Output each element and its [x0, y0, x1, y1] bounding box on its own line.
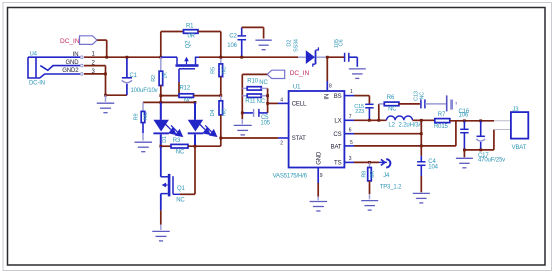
svg-text:R12: R12	[180, 86, 191, 92]
svg-text:VAS5175/H/6: VAS5175/H/6	[273, 174, 308, 180]
svg-text:0R: 0R	[370, 171, 376, 178]
svg-text:7: 7	[349, 114, 352, 120]
svg-text:D2: D2	[287, 40, 293, 47]
svg-text:C1: C1	[130, 73, 138, 79]
net label DC_IN (right flag)	[267, 70, 309, 78]
svg-text:DC_IN: DC_IN	[290, 70, 310, 77]
resistor R11 NC	[242, 94, 267, 105]
node LED1 anode	[159, 101, 162, 104]
node C15 bottom	[368, 119, 371, 122]
ground C4	[413, 193, 430, 203]
svg-text:NC: NC	[143, 112, 149, 120]
svg-text:104: 104	[428, 164, 438, 170]
svg-text:1K: 1K	[163, 72, 169, 79]
capacitor C13 NC	[413, 91, 425, 108]
wire BS pin 1	[344, 96, 369, 104]
node C17 top	[479, 119, 482, 122]
node LED2 anode	[194, 101, 197, 104]
node R5 top junction	[219, 56, 222, 59]
pin GND 9	[316, 151, 322, 179]
svg-text:NC: NC	[222, 66, 228, 74]
pin CS 6	[333, 127, 351, 137]
ground C2	[255, 40, 271, 50]
svg-text:NC: NC	[222, 108, 228, 116]
node R11 right	[266, 94, 269, 97]
wire IN row	[84, 56, 161, 58]
wire Q2 drain to D2	[199, 56, 298, 58]
svg-text:D1: D1	[162, 136, 168, 143]
resistor R6 NC	[379, 95, 399, 112]
wire LED1 cathode to Q1 drain	[160, 146, 162, 177]
wire flag to R10/R11	[242, 74, 267, 113]
wire GND2 pin3	[84, 73, 106, 75]
svg-text:BS: BS	[334, 94, 342, 100]
svg-text:0R: 0R	[188, 34, 196, 40]
capacitor C5 105	[242, 109, 270, 127]
node C16 bottom	[463, 149, 466, 152]
resistor R9 NC	[134, 102, 150, 140]
pin CELL 4	[280, 97, 307, 107]
svg-text:U4: U4	[30, 52, 38, 58]
svg-text:J4: J4	[383, 173, 390, 179]
svg-text:R7: R7	[438, 112, 446, 118]
wire R2 bottom	[160, 86, 162, 103]
svg-text:D4: D4	[210, 110, 216, 117]
wire C13 to battery	[425, 103, 447, 105]
svg-text:223: 223	[355, 109, 364, 115]
ground R9	[135, 142, 153, 152]
ground R8	[361, 201, 378, 211]
node C16 top	[463, 119, 466, 122]
svg-text:Q2: Q2	[186, 40, 192, 49]
wire STAT to D4 column	[221, 137, 289, 139]
capacitor C6 105	[327, 39, 357, 67]
svg-text:9: 9	[320, 173, 323, 179]
capacitor C1 100uF/10v	[122, 57, 158, 95]
wire LED2 cathode to Q1 gate	[180, 146, 195, 194]
wire U1 GND pin	[317, 168, 319, 201]
testpoint J4 TP3_1.2	[379, 159, 402, 190]
wire battery negative rail	[464, 130, 494, 150]
ground C16	[463, 150, 465, 158]
svg-text:NC: NC	[259, 80, 268, 86]
node CS column top	[420, 119, 423, 122]
connector U4 (DC-IN jack)	[28, 52, 80, 87]
svg-text:NC: NC	[184, 98, 193, 104]
node C5 left junction	[241, 112, 244, 115]
svg-text:R6: R6	[387, 95, 395, 101]
svg-text:VBAT: VBAT	[512, 145, 527, 151]
wire R6 branch vertical	[378, 104, 380, 120]
battery symbol (cell)	[447, 95, 457, 111]
resistor R7 R015	[434, 112, 450, 130]
wire R6 to C13	[399, 103, 420, 105]
transistor Q1 NC (N-MOSFET)	[161, 174, 186, 211]
pin 1 IN	[73, 52, 96, 59]
inductor L2 2.2uH/3A	[387, 116, 423, 128]
svg-text:4: 4	[280, 97, 283, 103]
node R8 top	[368, 161, 371, 164]
wire R12 left	[161, 95, 179, 97]
node Q2 source junction	[159, 56, 162, 59]
svg-text:NC: NC	[176, 198, 185, 204]
node BAT rail crossing	[420, 145, 423, 148]
node CELL branch	[266, 102, 269, 105]
wire C2 top hook	[242, 27, 264, 38]
node C2 bottom	[240, 56, 243, 59]
resistor R10 NC	[242, 79, 268, 91]
wire BAT pin 5 rail	[344, 121, 456, 146]
svg-text:C6: C6	[339, 40, 345, 47]
wire CELL pin 4	[268, 102, 289, 104]
svg-text:105: 105	[260, 121, 270, 127]
wire CS column	[420, 120, 422, 146]
svg-text:LX: LX	[334, 119, 341, 125]
capacitor C2 106	[227, 27, 246, 57]
wire R1 left	[161, 32, 184, 58]
svg-text:J3: J3	[512, 107, 519, 113]
resistor R12 NC	[179, 86, 194, 105]
wire R10/R11 right vertical	[267, 88, 269, 113]
svg-text:GND2: GND2	[62, 68, 79, 74]
capacitor C4 104	[417, 146, 439, 192]
diode D4 NC (vertical body)	[210, 96, 227, 147]
svg-text:R8: R8	[362, 171, 368, 178]
wire LX pin 7	[344, 119, 386, 121]
resistor R1 0R	[184, 23, 199, 39]
svg-text:3: 3	[349, 156, 352, 162]
svg-text:106: 106	[227, 43, 237, 49]
pin STAT 2	[280, 136, 306, 146]
ground (input)	[97, 95, 115, 113]
wire LED anode row	[143, 101, 195, 103]
connector J3 VBAT	[494, 107, 528, 151]
capacitor C16 106	[459, 109, 470, 150]
wire D2 junction to U1 IN pin 8	[326, 57, 328, 91]
wire Q1 source to ground	[160, 210, 162, 230]
node R3 left	[159, 145, 162, 148]
svg-text:GND: GND	[65, 60, 79, 66]
pin IN 8	[324, 84, 332, 100]
node CS junction	[420, 132, 423, 135]
node D2 cathode junction	[326, 56, 329, 59]
svg-text:R015: R015	[434, 124, 449, 130]
svg-text:CELL: CELL	[292, 102, 307, 108]
svg-text:SS34: SS34	[294, 39, 300, 52]
svg-text:1: 1	[350, 89, 353, 95]
wire CS pin 6	[344, 133, 421, 135]
wire R7 right / output rail	[450, 120, 494, 122]
svg-text:NC: NC	[257, 99, 266, 105]
wire L2 to R7	[413, 119, 435, 121]
wire GND pin2	[84, 66, 106, 96]
svg-text:DC_IN: DC_IN	[60, 38, 80, 45]
wire flag to IN row	[97, 40, 107, 57]
svg-text:U1: U1	[293, 85, 301, 91]
transistor Q2 (P-MOSFET)	[161, 40, 199, 96]
pin BAT 5	[331, 140, 353, 150]
LED D3	[188, 102, 217, 146]
svg-text:IN: IN	[324, 94, 330, 100]
svg-text:R1: R1	[186, 23, 194, 29]
svg-text:8: 8	[329, 84, 332, 90]
svg-text:C2: C2	[229, 33, 237, 39]
node R6 branch	[377, 119, 380, 122]
svg-text:TP3_1.2: TP3_1.2	[380, 184, 402, 190]
svg-text:STAT: STAT	[292, 136, 306, 142]
svg-text:R11: R11	[245, 98, 256, 104]
svg-text:L2: L2	[388, 122, 395, 128]
svg-text:DC-IN: DC-IN	[29, 81, 45, 87]
svg-text:470uF/25v: 470uF/25v	[478, 158, 505, 164]
node R12 row left	[159, 94, 162, 97]
svg-text:IN: IN	[73, 52, 79, 58]
ground U1	[310, 202, 328, 212]
svg-text:R3: R3	[173, 138, 181, 144]
svg-text:NC: NC	[388, 106, 397, 112]
resistor R8 0R	[362, 162, 377, 199]
svg-text:106: 106	[459, 113, 469, 119]
svg-text:2.2uH/3A: 2.2uH/3A	[399, 122, 423, 128]
svg-text:R5: R5	[210, 67, 216, 74]
node C17 bottom	[479, 149, 482, 152]
capacitor C15 223	[354, 104, 373, 120]
pin LX 7	[334, 114, 351, 125]
svg-text:Q1: Q1	[177, 186, 186, 192]
LED D1	[153, 102, 182, 146]
node R12 right junction	[219, 94, 222, 97]
pin 2 GND	[65, 60, 95, 67]
svg-text:TS: TS	[334, 161, 342, 167]
pin BS 1	[334, 89, 353, 100]
svg-text:R10: R10	[247, 79, 258, 85]
svg-text:100uF/10v: 100uF/10v	[131, 88, 158, 94]
svg-text:R2: R2	[151, 75, 157, 82]
ground C5	[241, 113, 243, 124]
wire to C1 bottom	[106, 94, 127, 96]
svg-text:NC: NC	[419, 92, 425, 100]
resistor R2 1K	[151, 57, 169, 85]
svg-text:2: 2	[280, 140, 283, 146]
pin 3 GND2	[62, 68, 95, 75]
ground C6	[349, 69, 366, 79]
svg-text:6: 6	[349, 127, 352, 133]
diode D2 SS34	[287, 39, 328, 67]
op-amp U1 VAS5175/H/6 (charger IC)	[273, 85, 345, 180]
node pin3 junction	[104, 73, 107, 76]
svg-text:BAT: BAT	[331, 144, 342, 150]
svg-text:CS: CS	[333, 132, 341, 138]
svg-text:GND: GND	[316, 151, 322, 165]
resistor R5 NC	[210, 57, 227, 95]
pin TS 3	[334, 156, 352, 166]
net label DC_IN (left flag)	[60, 36, 97, 45]
node IN junction	[105, 56, 108, 59]
wire R12 right	[194, 95, 221, 97]
node STAT junction	[219, 137, 222, 140]
wire TS pin 3	[344, 161, 379, 163]
node R3 right	[194, 145, 197, 148]
capacitor C17 470uF/25v	[476, 121, 505, 164]
resistor R3 NC	[161, 138, 221, 155]
node C1 top	[126, 56, 129, 59]
node gnd junction	[104, 94, 107, 97]
svg-text:R9: R9	[134, 114, 140, 121]
wire R1 right	[198, 32, 221, 58]
svg-text:NC: NC	[176, 149, 185, 155]
ground Q1	[152, 231, 170, 241]
